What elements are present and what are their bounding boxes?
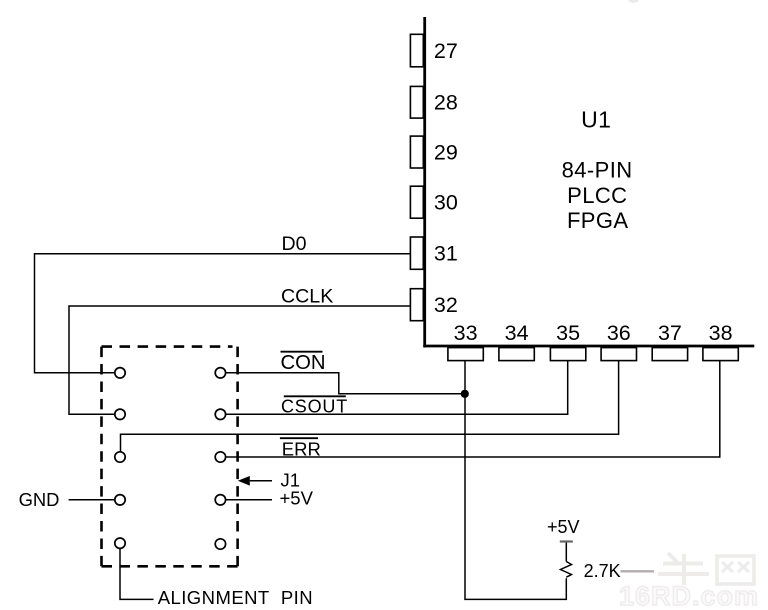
- svg-text:29: 29: [434, 140, 458, 164]
- svg-text:D0: D0: [282, 233, 307, 255]
- svg-text:37: 37: [658, 321, 682, 345]
- svg-text:32: 32: [434, 293, 458, 317]
- svg-text:35: 35: [556, 321, 580, 345]
- svg-text:84-PIN: 84-PIN: [562, 157, 633, 182]
- svg-text:U1: U1: [581, 107, 611, 133]
- svg-text:38: 38: [709, 321, 733, 345]
- svg-text:16RD.com: 16RD.com: [619, 581, 759, 610]
- svg-text:33: 33: [454, 321, 478, 345]
- svg-text:2.7K: 2.7K: [584, 561, 621, 581]
- svg-text:28: 28: [434, 91, 458, 115]
- svg-text:CSOUT: CSOUT: [281, 397, 348, 417]
- svg-text:34: 34: [505, 321, 529, 345]
- svg-text:ERR: ERR: [282, 438, 321, 459]
- svg-text:30: 30: [434, 191, 458, 215]
- svg-text:CCLK: CCLK: [281, 286, 333, 308]
- svg-text:PLCC: PLCC: [567, 183, 627, 208]
- svg-text:+5V: +5V: [547, 517, 580, 537]
- svg-text:FPGA: FPGA: [567, 208, 629, 233]
- svg-text:31: 31: [434, 242, 458, 266]
- svg-text:+5V: +5V: [280, 487, 314, 508]
- svg-text:CON: CON: [281, 352, 326, 374]
- svg-text:GND: GND: [19, 489, 60, 510]
- svg-text:ALIGNMENT PIN: ALIGNMENT PIN: [158, 587, 313, 608]
- svg-text:36: 36: [607, 321, 631, 345]
- svg-text:27: 27: [434, 39, 458, 63]
